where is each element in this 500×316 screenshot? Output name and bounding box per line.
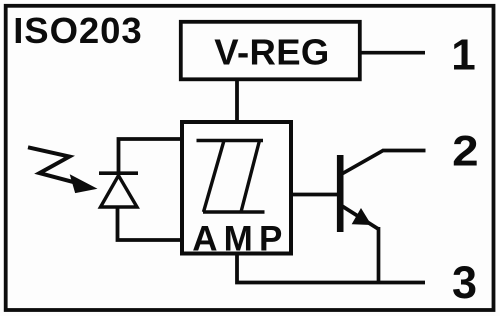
wire AMP output to transistor base bbox=[291, 193, 338, 197]
pin 2 label bbox=[452, 127, 478, 175]
svg-text:AMP: AMP bbox=[192, 220, 282, 259]
transistor Q1 emitter with arrowhead bbox=[342, 206, 379, 229]
svg-text:ISO203: ISO203 bbox=[13, 10, 142, 51]
photodiode D1 triangle bbox=[101, 176, 138, 208]
device label ISO203 bbox=[13, 10, 142, 51]
svg-text:1: 1 bbox=[451, 31, 475, 80]
pin 1 label bbox=[451, 31, 475, 80]
wire emitter to pin 3 net bbox=[377, 227, 381, 284]
pin 3 label bbox=[452, 257, 477, 308]
wire AMP to pin 3 bbox=[237, 253, 425, 283]
wire photodiode cathode to AMP input bbox=[119, 139, 184, 173]
voltage regulator U1 V-REG bbox=[181, 22, 360, 80]
svg-text:2: 2 bbox=[452, 127, 478, 175]
wire V-REG output to pin 1 bbox=[360, 51, 425, 55]
svg-text:V-REG: V-REG bbox=[214, 31, 329, 72]
transistor Q1 base bar bbox=[337, 155, 344, 232]
svg-text:3: 3 bbox=[452, 257, 477, 308]
light input arrow bbox=[28, 147, 96, 192]
hysteresis symbol bbox=[197, 141, 265, 213]
photodiode D1 cathode bar bbox=[99, 171, 138, 175]
wire photodiode anode to AMP input bbox=[118, 207, 184, 240]
wire V-REG to AMP bbox=[235, 79, 239, 122]
transistor Q1 collector bbox=[342, 151, 426, 174]
amplifier block U2 AMP bbox=[182, 122, 291, 259]
